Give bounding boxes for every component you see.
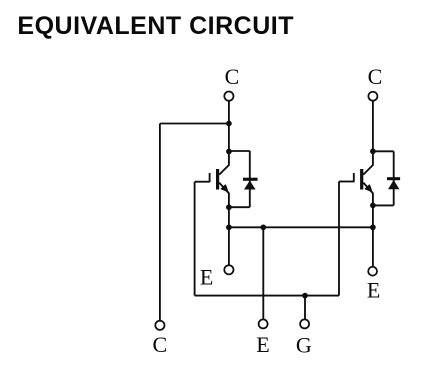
terminal E2 internal right: [368, 267, 377, 276]
node emitter bus E-tap junction: [260, 224, 266, 230]
svg-text:EQUIVALENT CIRCUIT: EQUIVALENT CIRCUIT: [17, 12, 294, 40]
svg-text:C: C: [153, 332, 168, 357]
node Q1 collector junction: [226, 149, 232, 155]
wire left C2 vertical drop: [159, 124, 161, 321]
node emitter bus right junction: [370, 224, 376, 230]
wire Q2 gate vertical: [338, 182, 340, 296]
svg-text:E: E: [367, 278, 380, 303]
junction node dots: [226, 121, 376, 299]
wire D1 bottom horizontal: [229, 206, 250, 208]
terminal E1 internal: [224, 265, 233, 274]
wire C3 lead: [372, 100, 374, 151]
wire D2 top horizontal: [373, 150, 394, 152]
node emitter bus left junction: [226, 224, 232, 230]
wire G terminal drop: [304, 296, 306, 320]
wire Q1 emitter node down: [228, 207, 230, 227]
node Q1 emitter junction: [226, 204, 232, 210]
wire top horizontal to left collector branch: [160, 123, 229, 125]
node gate bus G-tap junction: [302, 293, 308, 299]
terminal C2 bottom: [155, 321, 164, 330]
transistor Q2: [354, 151, 373, 205]
svg-text:G: G: [296, 332, 312, 357]
wire Q2 gate lead: [339, 181, 354, 183]
terminal G bottom: [300, 319, 309, 328]
wire Q1 gate vertical: [194, 182, 196, 296]
wire D1 top horizontal: [229, 150, 250, 152]
diode D2: [387, 177, 400, 189]
terminal circles: [155, 92, 377, 330]
terminal E bottom: [259, 319, 268, 328]
wire Q2 emitter node down: [372, 205, 374, 227]
wire emitter bus: [229, 226, 373, 228]
svg-text:E: E: [256, 332, 269, 357]
wire E2 drop: [372, 227, 374, 267]
wire E1 drop: [228, 227, 230, 265]
svg-text:C: C: [368, 64, 383, 89]
wire gate bus: [195, 295, 339, 297]
terminal C1 top-left: [224, 92, 233, 101]
wire Q1 gate lead: [195, 181, 210, 183]
diode D1: [243, 178, 258, 190]
node Q2 emitter junction: [370, 203, 376, 209]
svg-text:C: C: [225, 64, 240, 89]
wire D2 bottom horizontal: [373, 204, 394, 206]
wire collector node to Q1: [228, 124, 230, 152]
svg-text:E: E: [200, 265, 213, 290]
node top-left collector junction: [226, 121, 232, 127]
wire E terminal drop: [262, 227, 264, 319]
node Q2 collector junction: [370, 148, 376, 154]
wire D2 vertical: [393, 151, 395, 205]
terminal C3 top-right: [368, 92, 377, 101]
transistor Q1: [210, 152, 229, 208]
wire D1 vertical: [249, 151, 251, 207]
wire C1 lead: [228, 100, 230, 123]
